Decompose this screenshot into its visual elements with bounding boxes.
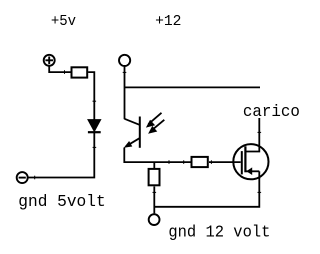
pin tick left of R3 — [183, 160, 185, 164]
resistor R1 — [72, 67, 88, 77]
svg-text:carico: carico — [243, 102, 300, 121]
stub from wire down to R2 — [153, 162, 155, 168]
pin tick below R2 — [153, 191, 157, 193]
wire from emitter to gate resistor R3 — [124, 148, 190, 163]
wire from + terminal to R1 — [49, 66, 70, 73]
phototransistor Q1 base bar — [139, 117, 141, 148]
terminal - (5V supply negative) — [17, 172, 28, 183]
pin tick on +12 terminal stub — [123, 71, 127, 73]
resistor R2 (gate pulldown) — [149, 169, 160, 185]
svg-text:+5v: +5v — [51, 13, 76, 30]
MOSFET Q2 body circle — [233, 144, 268, 179]
svg-text:gnd 12 volt: gnd 12 volt — [168, 222, 270, 241]
terminal +12 supply — [119, 55, 130, 66]
phototransistor Q1 emitter lead with arrow — [124, 138, 140, 148]
pin tick on wire at - terminal — [34, 176, 36, 180]
light arrow 1 into phototransistor — [146, 113, 162, 128]
phototransistor Q1 collector lead — [125, 119, 140, 125]
MOSFET Q2 drain lead up to load — [245, 118, 259, 152]
source return wire from MOSFET to ground node — [154, 178, 259, 206]
terminal + (5V supply positive) — [44, 55, 55, 66]
svg-text:+12: +12 — [155, 13, 181, 30]
MOSFET Q2 channel bar — [244, 146, 246, 172]
pin tick below diode cathode — [93, 146, 97, 148]
pin tick on wire at R1 left — [64, 70, 66, 74]
MOSFET Q2 gate bar — [241, 151, 243, 174]
wire from R1 to diode anode — [88, 72, 94, 120]
resistor R3 (gate series) — [192, 157, 208, 167]
wire from +12 terminal down to phototransistor collector — [124, 67, 126, 120]
pin tick on MOSFET drain wire — [258, 131, 262, 133]
wire from R2 to ground terminal — [153, 187, 155, 214]
pin tick on MOSFET source wire — [258, 191, 262, 193]
wire from R3 to MOSFET gate — [209, 161, 241, 163]
pin tick right of R3 — [210, 160, 212, 164]
pin tick on vertical wire — [93, 100, 97, 102]
diode D1 (LED of optocoupler, anode top) — [88, 120, 101, 133]
+12 rail wire to load — [125, 86, 261, 88]
terminal gnd 12V — [149, 214, 160, 225]
MOSFET Q2 source lead with substrate arrow — [246, 167, 259, 179]
svg-text:gnd 5volt: gnd 5volt — [18, 192, 105, 211]
wire from diode cathode to - terminal — [28, 132, 94, 177]
pin tick on emitter wire — [168, 160, 170, 164]
light arrow 2 into phototransistor — [148, 120, 164, 134]
